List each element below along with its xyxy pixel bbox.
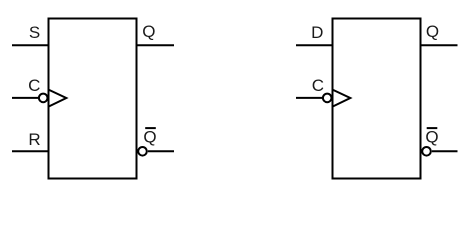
- svg-text:Q: Q: [143, 128, 156, 147]
- label Q-bar (U1): [143, 128, 156, 147]
- inversion bubble Q-bar U2: [422, 147, 431, 156]
- clock edge triangle U2: [333, 90, 351, 107]
- wire Q output U2: [421, 44, 458, 46]
- svg-text:S: S: [29, 23, 40, 42]
- wire C input: [12, 97, 38, 99]
- clock inversion bubble U1: [39, 94, 48, 103]
- wire Q-bar output U1: [148, 150, 174, 152]
- wire Q output U1: [137, 44, 175, 46]
- wire C input U2: [296, 97, 322, 99]
- clock inversion bubble U2: [323, 94, 332, 103]
- svg-text:Q: Q: [142, 22, 155, 41]
- svg-text:Q: Q: [425, 128, 438, 147]
- wire S input: [12, 44, 49, 46]
- wire Q-bar output U2: [432, 150, 458, 152]
- flip-flop U1 (SR flip-flop body): [49, 19, 137, 179]
- clock edge triangle U1: [49, 90, 67, 107]
- svg-text:C: C: [28, 76, 40, 95]
- label Q-bar (U2): [425, 128, 438, 147]
- svg-text:D: D: [311, 23, 323, 42]
- svg-text:Q: Q: [426, 22, 439, 41]
- wire R input: [12, 150, 49, 152]
- wire D input: [296, 44, 333, 46]
- svg-text:C: C: [312, 76, 324, 95]
- svg-text:R: R: [28, 130, 40, 149]
- flip-flop U2 (D flip-flop body): [333, 19, 421, 179]
- inversion bubble Q-bar U1: [138, 147, 147, 156]
